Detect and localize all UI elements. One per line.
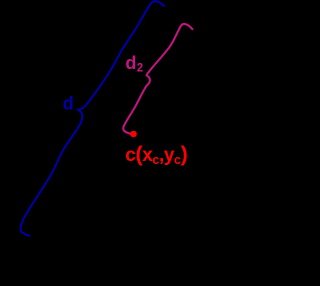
svg-text:2: 2 xyxy=(137,63,143,75)
node c: red point at centre xyxy=(130,131,137,138)
wire: magenta curly brace lower half xyxy=(123,75,150,133)
wire: magenta curly brace upper half (distance d2) xyxy=(147,24,193,76)
wire: blue curly brace upper half (distance d) xyxy=(78,1,165,110)
svg-text:d: d xyxy=(63,94,74,114)
wire: blue curly brace lower half xyxy=(21,110,83,236)
svg-text:c(xc,yc): c(xc,yc) xyxy=(125,142,187,167)
svg-text:d: d xyxy=(125,53,136,73)
